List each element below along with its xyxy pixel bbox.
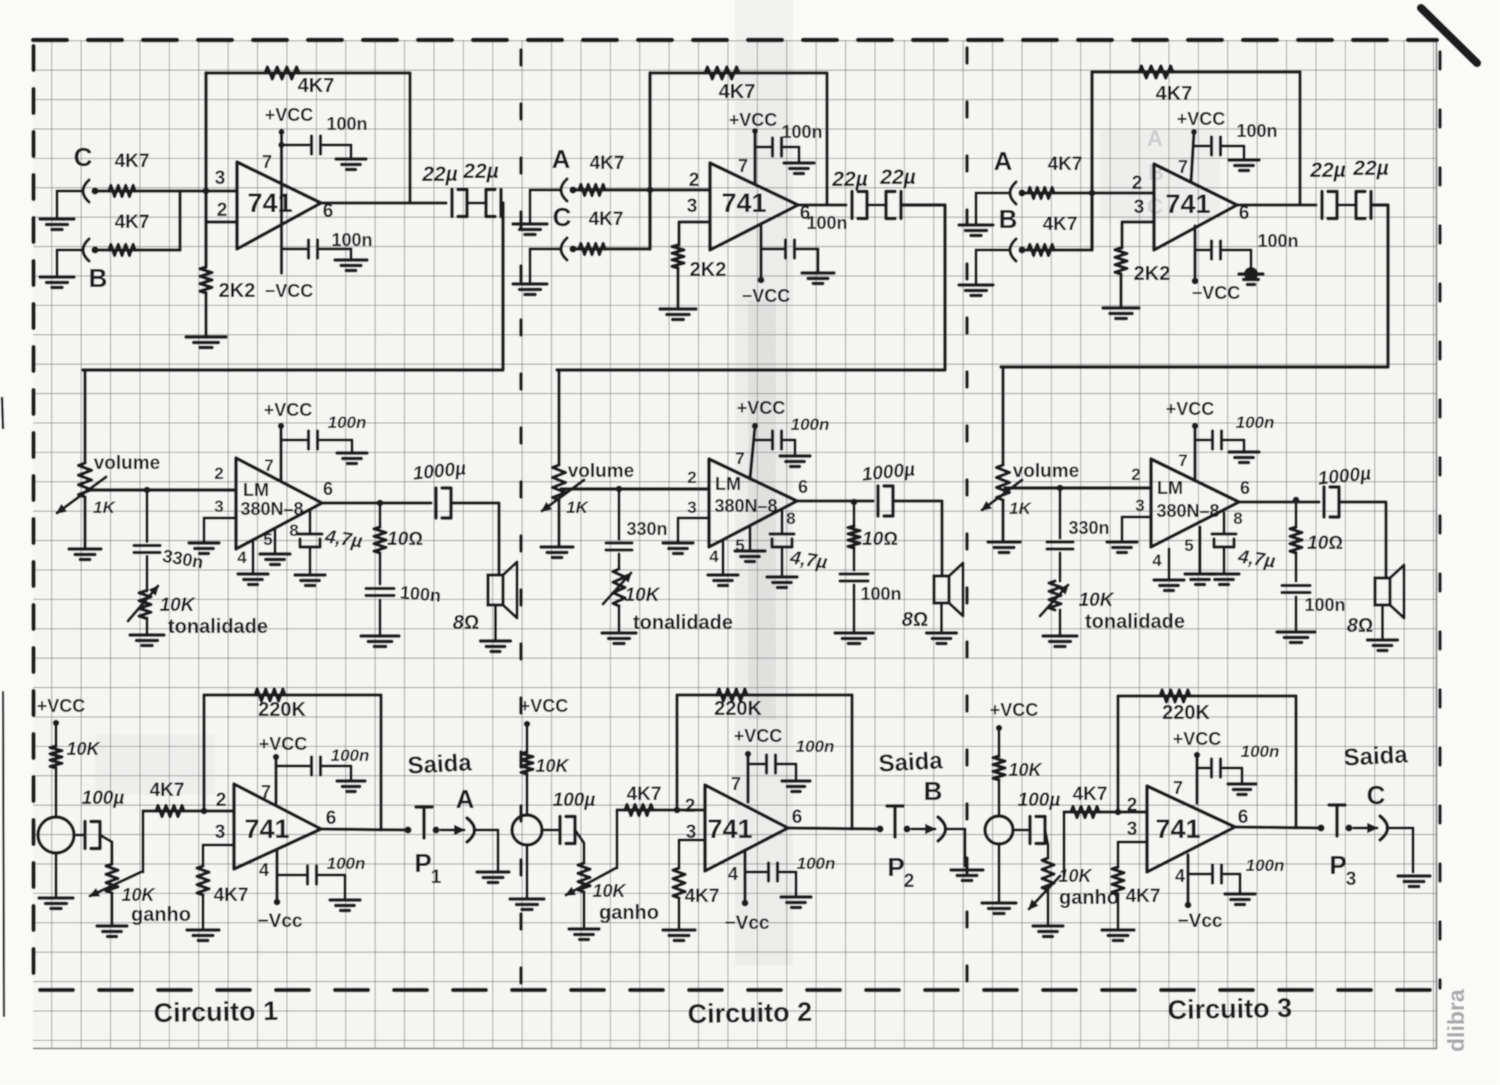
- node output dot (circuit 3): [1317, 824, 1324, 831]
- capacitor 100n supply mic (circuit 3): [1212, 759, 1221, 777]
- label 8ohm (circuit 3): [1347, 615, 1373, 637]
- svg-text:741: 741: [1165, 189, 1210, 219]
- svg-text:8: 8: [289, 521, 298, 540]
- label -VCC (circuit 1): [265, 281, 314, 301]
- wire input 2 (circuit 3): [1025, 248, 1092, 251]
- label 100n supply mic (circuit 3): [1241, 742, 1280, 761]
- svg-text:100n: 100n: [328, 413, 367, 432]
- wiper arrow volume (circuit 2): [542, 480, 584, 511]
- pin 8 label LM380 (circuit 3): [1233, 509, 1242, 528]
- wire wiper to 4K7 (circuit 3): [1063, 812, 1066, 876]
- label input C (circuit 1): [74, 142, 93, 172]
- svg-text:4K7: 4K7: [1156, 83, 1193, 105]
- label LM (circuit 3): [1157, 478, 1183, 498]
- svg-text:4K7: 4K7: [589, 209, 624, 230]
- wire 220K box right (circuit 1): [379, 695, 382, 830]
- ground gain pot (circuit 3): [1033, 926, 1063, 937]
- pin 7 glyph (circuit 2): [731, 774, 741, 794]
- svg-text:22µ: 22µ: [462, 160, 498, 183]
- label 100n pin4 mic (circuit 3): [1246, 856, 1285, 875]
- svg-text:10K: 10K: [592, 881, 627, 901]
- jack arc (circuit 1): [467, 818, 475, 842]
- svg-text:4: 4: [709, 547, 719, 566]
- wire pin2 stub (circuit 1): [206, 220, 237, 223]
- potentiometer 10K tone (circuit 1): [139, 591, 151, 618]
- node feedback junction (circuit 2): [674, 807, 681, 814]
- wire output mic (circuit 3): [1235, 827, 1321, 828]
- svg-text:−Vcc: −Vcc: [1178, 911, 1223, 932]
- label 100n pin4 (circuit 3): [1257, 231, 1298, 251]
- wire input 1 to ground rail (circuit 1): [57, 190, 82, 193]
- pin 6 label (circuit 2): [800, 203, 811, 224]
- svg-text:ganho: ganho: [131, 904, 191, 926]
- wire ground rail 1 (circuit 2): [529, 190, 532, 224]
- wire tone pot to ground (circuit 3): [1059, 610, 1062, 636]
- wire pin4 vertical (circuit 3): [1193, 226, 1196, 281]
- wire output LM380 (circuit 2): [797, 499, 873, 502]
- wire pin3 stub LM380 (circuit 2): [678, 518, 709, 543]
- wire feedback box left (circuit 1): [204, 73, 207, 267]
- svg-text:+VCC: +VCC: [1173, 729, 1222, 749]
- label 4K7 series (circuit 3): [1073, 784, 1108, 805]
- ground gain pot (circuit 2): [569, 929, 599, 940]
- label +VCC (circuit 2): [729, 110, 778, 130]
- wire 2K2 to ground (circuit 2): [676, 268, 679, 309]
- svg-text:7: 7: [731, 774, 741, 794]
- label 4K7 feedback (circuit 1): [298, 75, 335, 97]
- node output junction (circuit 1): [377, 500, 384, 507]
- ground 4.7u (circuit 2): [767, 577, 797, 588]
- ground pin4 100n (circuit 1): [335, 260, 367, 271]
- node pin4 end (circuit 3): [1192, 278, 1199, 285]
- svg-text:10K: 10K: [1079, 590, 1115, 611]
- label -VCC (circuit 3): [1192, 283, 1241, 303]
- svg-text:7: 7: [735, 449, 744, 468]
- svg-text:4K7: 4K7: [1048, 154, 1083, 175]
- wire tone pot to ground (circuit 1): [146, 618, 149, 635]
- ground jack (circuit 2): [951, 870, 983, 881]
- svg-text:10Ω: 10Ω: [387, 529, 423, 550]
- wire 100n tap LM380 (circuit 1): [281, 439, 306, 442]
- wire pin3 stub (circuit 3): [1122, 222, 1154, 248]
- ground pin4 100n mic (circuit 2): [781, 897, 811, 908]
- svg-text:3: 3: [1127, 819, 1138, 840]
- svg-text:8: 8: [786, 509, 795, 528]
- ground volume pot (circuit 3): [988, 542, 1020, 553]
- wire speaker ground (circuit 2): [940, 603, 943, 633]
- capacitor 100n supply mic (circuit 2): [767, 755, 776, 773]
- pin label top (circuit 3): [1132, 173, 1143, 194]
- label 100n supply mic (circuit 1): [331, 746, 370, 765]
- svg-text:Saida: Saida: [407, 749, 473, 779]
- op-amp 741 (circuit 2): [710, 163, 798, 250]
- wire pin4 100n ground mic (circuit 2): [780, 872, 796, 897]
- potentiometer 10K tone (circuit 2): [613, 569, 625, 606]
- wiper arrow tone (circuit 2): [603, 573, 631, 604]
- pin 7 glyph (circuit 3): [1173, 778, 1183, 798]
- label input A (circuit 3): [994, 146, 1013, 176]
- label 220K (circuit 2): [714, 698, 762, 720]
- svg-text:B: B: [999, 204, 1018, 234]
- label P1 (circuit 1): [414, 848, 441, 888]
- wire 100u to pot (circuit 2): [575, 830, 584, 863]
- input plug C (circuit 2): [561, 238, 577, 260]
- pin 2 label LM380 (circuit 1): [214, 464, 223, 483]
- node supply top (circuit 1): [279, 129, 285, 135]
- op-amp LM380N-8 (circuit 2): [709, 459, 797, 547]
- wire input join vertical (circuit 1): [178, 191, 181, 250]
- label ganho (circuit 1): [131, 904, 191, 926]
- jack arrow (circuit 3): [1354, 824, 1377, 832]
- node junction input (circuit 1): [203, 188, 210, 195]
- wire pin5 stub LM380 (circuit 1): [274, 529, 277, 554]
- ground 100n output (circuit 2): [835, 633, 873, 644]
- wire 100u to pot (circuit 3): [1045, 830, 1048, 858]
- ground 100n supply (circuit 2): [784, 163, 814, 174]
- ground speaker (circuit 3): [1368, 640, 1398, 651]
- wire pin3 stub (circuit 2): [679, 222, 710, 245]
- svg-text:4: 4: [259, 860, 269, 880]
- wire pin4 100n row (circuit 1): [282, 248, 307, 251]
- label output letter (circuit 3): [1367, 780, 1386, 810]
- svg-text:7: 7: [261, 782, 271, 802]
- svg-text:+VCC: +VCC: [1177, 109, 1226, 129]
- node supply mic (circuit 2): [745, 751, 751, 757]
- jack arc (circuit 2): [938, 817, 946, 841]
- input plug B (circuit 3): [1010, 239, 1026, 261]
- resistor 2K2 (circuit 1): [200, 267, 212, 293]
- label output letter (circuit 1): [456, 784, 475, 814]
- svg-text:tonalidade: tonalidade: [633, 612, 733, 634]
- wire wiper to 4K7 (circuit 2): [616, 810, 619, 868]
- capacitor 330n (circuit 1): [134, 546, 160, 553]
- label 2K2 (circuit 2): [690, 259, 727, 281]
- svg-text:2: 2: [214, 464, 223, 483]
- ground 2K2 (circuit 2): [660, 309, 696, 320]
- pin 3 label (circuit 2): [686, 822, 697, 843]
- wire pin4 stub LM380 (circuit 2): [722, 540, 725, 575]
- microphone (circuit 2): [512, 815, 542, 845]
- pin label top (circuit 1): [215, 168, 226, 189]
- wire feedback box right (circuit 3): [1298, 72, 1301, 205]
- pin 8 label LM380 (circuit 1): [289, 521, 298, 540]
- svg-text:6: 6: [798, 477, 808, 497]
- ground mic (circuit 3): [982, 903, 1016, 914]
- wire wiper to amp (circuit 2): [561, 487, 709, 490]
- wire output mic (circuit 1): [321, 829, 408, 830]
- node junction input (circuit 2): [647, 187, 654, 194]
- label 4K7 pin3 (circuit 2): [685, 886, 720, 907]
- wire output mic (circuit 2): [788, 828, 880, 829]
- label 22u second (circuit 2): [879, 166, 915, 189]
- pin 6 label LM380 (circuit 2): [798, 477, 808, 497]
- label 4.7u (circuit 3): [1236, 546, 1277, 572]
- wire pin7 vertical (circuit 2): [753, 131, 756, 184]
- node supply LM380 (circuit 2): [752, 423, 758, 429]
- svg-text:100n: 100n: [326, 114, 367, 134]
- ground 100n supply (circuit 1): [336, 159, 366, 170]
- svg-text:−VCC: −VCC: [742, 286, 791, 306]
- label 100n pin4 mic (circuit 1): [327, 854, 366, 873]
- svg-text:C: C: [74, 142, 93, 172]
- resistor 4K7 input 1 (circuit 1): [109, 186, 135, 197]
- wire junction to 330n (circuit 1): [146, 490, 149, 542]
- potentiometer volume 1K (circuit 3): [997, 465, 1010, 500]
- label 100n pin4 (circuit 1): [331, 230, 372, 250]
- resistor 4K7 input 2 (circuit 1): [109, 245, 135, 256]
- label tonalidade (circuit 2): [633, 612, 733, 634]
- wire 220K box top (circuit 1): [204, 693, 381, 696]
- ground pin4 100n (circuit 2): [802, 273, 834, 284]
- node pin4 end mic (circuit 1): [274, 899, 281, 906]
- label +VCC 741 (circuit 3): [1173, 729, 1222, 749]
- label 100u (circuit 2): [553, 790, 596, 811]
- wire pin8 stub LM380 (circuit 1): [309, 511, 312, 534]
- wire mic to ground (circuit 3): [998, 844, 1001, 903]
- wire pin7 vertical LM380 (circuit 2): [750, 426, 755, 479]
- wire 10K to mic (circuit 3): [998, 780, 1001, 816]
- ground pin4 100n mic (circuit 1): [330, 900, 360, 911]
- label input B (circuit 3): [999, 204, 1018, 234]
- resistor 10ohm (circuit 1): [374, 503, 386, 553]
- svg-text:3: 3: [687, 498, 696, 517]
- capacitor 22u first (circuit 2): [852, 192, 867, 219]
- svg-text:100n: 100n: [806, 213, 847, 233]
- resistor 4K7 feedback (circuit 2): [705, 67, 739, 79]
- capacitor 100n pin4 (circuit 2): [786, 240, 795, 258]
- wire output LM380 (circuit 1): [322, 501, 431, 504]
- label 100u (circuit 3): [1018, 790, 1061, 811]
- svg-text:LM: LM: [243, 480, 269, 500]
- resistor 220K feedback (circuit 1): [255, 689, 285, 701]
- svg-text:741: 741: [707, 814, 752, 844]
- wire pin7 vertical (circuit 3): [1191, 132, 1194, 182]
- wire 4.7u ground (circuit 2): [781, 547, 784, 577]
- node plug dot (circuit 1): [432, 826, 439, 833]
- capacitor 4.7u bypass (circuit 1): [298, 534, 322, 547]
- pin 3 label (circuit 3): [1127, 819, 1138, 840]
- capacitor 100u (circuit 1): [85, 822, 100, 849]
- svg-text:8Ω: 8Ω: [1347, 615, 1373, 637]
- pin 2 label LM380 (circuit 3): [1131, 465, 1140, 484]
- ground tone pot (circuit 1): [130, 635, 164, 646]
- pin 4 glyph (circuit 1): [259, 860, 269, 880]
- svg-text:100n: 100n: [1236, 121, 1277, 141]
- pin 7 glyph (circuit 1): [262, 152, 272, 172]
- wire 10K to mic (circuit 2): [526, 774, 529, 815]
- label P2 (circuit 2): [887, 852, 914, 892]
- pin 3 label LM380 (circuit 3): [1135, 496, 1144, 515]
- node 100n tap (circuit 1): [278, 142, 284, 148]
- wire pin5 stub LM380 (circuit 3): [1199, 527, 1202, 574]
- label -Vcc mic (circuit 3): [1178, 911, 1223, 932]
- svg-text:+VCC: +VCC: [259, 734, 308, 754]
- wire 100n ground LM380 (circuit 3): [1224, 440, 1244, 452]
- wire jack tail (circuit 3): [1387, 828, 1413, 872]
- microphone (circuit 1): [38, 817, 74, 853]
- svg-text:4K7: 4K7: [1073, 784, 1108, 805]
- wire junction to 330n (circuit 3): [1059, 488, 1062, 538]
- capacitor 100n output (circuit 3): [1282, 586, 1310, 593]
- ground 100n LM380 (circuit 3): [1229, 452, 1259, 463]
- ground tone pot (circuit 2): [602, 633, 636, 644]
- label +VCC (circuit 3): [1177, 109, 1226, 129]
- label 330n (circuit 2): [626, 519, 667, 539]
- label Saida (circuit 3): [1343, 741, 1409, 771]
- potentiometer volume 1K (circuit 1): [79, 463, 92, 497]
- pin 6 label LM380 (circuit 1): [323, 479, 333, 499]
- wire output corner down (circuit 1): [83, 203, 503, 370]
- capacitor 100n supply mic (circuit 1): [312, 757, 321, 775]
- svg-text:10K: 10K: [535, 756, 570, 776]
- speaker 8ohm (circuit 1): [488, 562, 517, 618]
- svg-text:ganho: ganho: [599, 902, 659, 924]
- label 741 mic (circuit 3): [1155, 814, 1200, 844]
- capacitor 100n LM380 (circuit 3): [1213, 431, 1222, 449]
- wire 220K box top (circuit 3): [1118, 694, 1296, 697]
- node supply LM380 (circuit 1): [278, 423, 284, 429]
- resistor 4K7 series (circuit 2): [625, 805, 653, 816]
- svg-text:6: 6: [1240, 478, 1250, 498]
- label output letter (circuit 2): [924, 776, 943, 806]
- node output junction (circuit 2): [851, 499, 858, 506]
- wire speaker ground (circuit 1): [494, 605, 497, 641]
- pin 5 label LM380 (circuit 3): [1184, 536, 1193, 555]
- label 22u first (circuit 2): [831, 168, 867, 191]
- svg-text:7: 7: [1178, 157, 1188, 177]
- svg-text:volume: volume: [1013, 461, 1080, 482]
- speaker 8ohm (circuit 2): [934, 563, 963, 616]
- svg-text:P: P: [1329, 850, 1346, 880]
- node output junction (circuit 3): [1293, 497, 1300, 504]
- label 10K gain (circuit 3): [1058, 866, 1093, 886]
- resistor 4K7 pin3 (circuit 3): [1112, 867, 1124, 894]
- svg-text:100n: 100n: [1257, 231, 1298, 251]
- resistor 220K feedback (circuit 2): [717, 689, 747, 701]
- ground pin3 LM380 (circuit 3): [1107, 542, 1137, 553]
- pin 7 label LM380 (circuit 2): [735, 449, 744, 468]
- ground 100n LM380 (circuit 1): [337, 453, 367, 464]
- label 380N-8 (circuit 3): [1156, 501, 1219, 521]
- svg-text:4K7: 4K7: [590, 153, 625, 174]
- pin 6 label (circuit 3): [1238, 807, 1249, 828]
- wire 220K box left (circuit 3): [1116, 696, 1119, 812]
- svg-text:100n: 100n: [399, 582, 442, 606]
- ground mic (circuit 1): [39, 898, 73, 909]
- pin 7 label LM380 (circuit 3): [1178, 451, 1187, 470]
- pin 7 glyph (circuit 3): [1178, 157, 1188, 177]
- wiper arrow gain (circuit 1): [90, 872, 141, 896]
- label volume (circuit 2): [568, 461, 635, 482]
- wire output (circuit 3): [1237, 203, 1316, 206]
- wire 220K box right (circuit 2): [850, 695, 853, 829]
- resistor 10K bias (circuit 1): [50, 746, 62, 768]
- svg-text:10K: 10K: [625, 585, 661, 606]
- svg-text:7: 7: [1173, 778, 1183, 798]
- node supply top (circuit 2): [752, 128, 758, 134]
- wire wiper to 4K7 (circuit 1): [142, 811, 145, 872]
- ground 4K7 pin3 (circuit 3): [1102, 930, 1134, 941]
- label 100n pin4 (circuit 2): [806, 213, 847, 233]
- label 100u (circuit 1): [82, 788, 125, 809]
- ground 2K2 (circuit 3): [1103, 308, 1139, 319]
- wire pin4 100n ground mic (circuit 3): [1224, 874, 1240, 894]
- svg-text:tonalidade: tonalidade: [1085, 611, 1185, 633]
- wire volume pot bottom (circuit 1): [83, 497, 86, 549]
- svg-text:8Ω: 8Ω: [902, 609, 928, 631]
- svg-text:tonalidade: tonalidade: [168, 616, 268, 638]
- pin 3 label (circuit 1): [215, 822, 226, 843]
- wire 100n tap (circuit 3): [1194, 145, 1209, 148]
- pin 4 label LM380 (circuit 3): [1152, 551, 1162, 570]
- svg-text:Circuito 1: Circuito 1: [153, 996, 278, 1028]
- label +VCC 741 (circuit 2): [734, 726, 783, 746]
- resistor 10ohm (circuit 2): [848, 502, 860, 548]
- svg-text:−Vcc: −Vcc: [725, 913, 770, 934]
- potentiometer 10K gain (circuit 2): [578, 863, 590, 892]
- svg-text:22µ: 22µ: [1352, 157, 1388, 180]
- wire ground rail 2 (circuit 1): [56, 250, 59, 277]
- svg-text:+VCC: +VCC: [264, 400, 313, 420]
- input plug A (circuit 2): [561, 179, 577, 201]
- label 4.7u (circuit 1): [323, 526, 364, 552]
- label 220K (circuit 3): [1162, 702, 1210, 724]
- op-amp 741 (circuit 1): [237, 162, 321, 249]
- wire output corner down (circuit 2): [557, 205, 945, 370]
- pin 4 glyph (circuit 2): [728, 864, 738, 884]
- capacitor 4.7u bypass (circuit 3): [1212, 534, 1236, 547]
- svg-text:4K7: 4K7: [214, 885, 249, 906]
- wire volume pot bottom (circuit 2): [557, 500, 560, 547]
- svg-text:B: B: [924, 776, 943, 806]
- wire pin3 stub mic (circuit 1): [203, 845, 234, 866]
- label 4K7 pin3 (circuit 1): [214, 885, 249, 906]
- svg-text:LM: LM: [1157, 478, 1183, 498]
- wire feedback box left (circuit 2): [648, 73, 651, 249]
- op-amp LM380N-8 (circuit 3): [1151, 459, 1239, 547]
- label 1000u (circuit 2): [861, 459, 916, 485]
- svg-text:6: 6: [323, 479, 333, 499]
- ground 100n LM380 (circuit 2): [780, 456, 810, 467]
- wire pin4 vertical (circuit 2): [759, 226, 762, 280]
- wire feedback box top (circuit 2): [650, 71, 827, 74]
- label 741 mic (circuit 2): [707, 814, 752, 844]
- pin 7 glyph (circuit 2): [738, 156, 748, 176]
- label LM (circuit 1): [243, 480, 269, 500]
- svg-text:741: 741: [244, 814, 289, 844]
- label -Vcc mic (circuit 1): [258, 911, 303, 932]
- label 4K7 input 2 (circuit 2): [589, 209, 624, 230]
- wire 2K2 to ground (circuit 1): [204, 293, 207, 337]
- svg-text:8Ω: 8Ω: [453, 612, 479, 634]
- wire pin3 stub mic (circuit 2): [679, 840, 705, 868]
- wire 100n tap (circuit 1): [282, 144, 310, 147]
- label ganho (circuit 2): [599, 902, 659, 924]
- ground blob pin4 (circuit 3): [1239, 267, 1263, 285]
- ground input 1 (circuit 3): [959, 225, 993, 236]
- svg-text:6: 6: [1238, 807, 1249, 828]
- svg-text:A: A: [456, 784, 475, 814]
- capacitor 100n LM380 (circuit 1): [309, 431, 318, 449]
- capacitor 100u (circuit 2): [560, 817, 575, 844]
- wire feedback box right (circuit 2): [825, 73, 828, 205]
- node junction tone (circuit 3): [1057, 485, 1064, 492]
- jack arc (circuit 3): [1380, 816, 1388, 840]
- label +VCC mic (circuit 3): [990, 700, 1039, 720]
- label 10K tone (circuit 3): [1079, 590, 1115, 611]
- svg-text:1: 1: [431, 867, 442, 888]
- ground pin3 LM380 (circuit 2): [663, 543, 693, 554]
